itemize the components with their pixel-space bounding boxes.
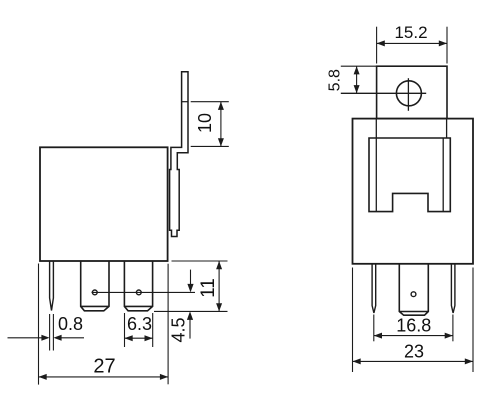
dim 6.3 line xyxy=(125,337,153,339)
right view: center pin xyxy=(399,264,428,315)
dim 16.8 line xyxy=(374,335,453,337)
pin tip extension line xyxy=(154,310,228,312)
dim 23 line xyxy=(353,360,474,362)
dim 10 line xyxy=(220,102,222,147)
right view: mounting tab xyxy=(377,66,447,118)
dim 4.5 arrow xyxy=(189,317,191,339)
leader arrow to hole line xyxy=(190,270,192,286)
bracket bend line xyxy=(182,101,188,103)
dim 10 ref bottom line xyxy=(191,145,229,147)
23 extension lines xyxy=(352,268,354,373)
dim 27 line xyxy=(39,376,169,378)
left view: thin pin xyxy=(50,261,54,311)
0.8 extension lines xyxy=(49,314,51,351)
svg-text:27: 27 xyxy=(93,356,115,378)
crosshair vertical xyxy=(407,78,409,111)
recess outline xyxy=(369,138,450,212)
27 extension line right xyxy=(167,264,169,385)
tab hole circle xyxy=(396,81,421,106)
right view: left thin pin xyxy=(372,264,376,313)
svg-text:11: 11 xyxy=(198,278,219,298)
pin 1 hole xyxy=(92,290,97,295)
right view: body xyxy=(353,119,474,264)
left view: mounting bracket xyxy=(170,72,188,237)
left view: relay body xyxy=(40,147,168,261)
right view: right thin pin xyxy=(451,264,455,313)
6.3 extension lines xyxy=(124,313,126,347)
bracket line inside body right xyxy=(446,119,448,138)
dim 0.8 right arrow xyxy=(62,337,85,339)
svg-text:10: 10 xyxy=(195,113,215,133)
dim 10 ref top line xyxy=(191,101,229,103)
16.8 extension lines xyxy=(373,315,375,342)
bracket line inside body left xyxy=(375,119,377,212)
dim 5.8 line xyxy=(356,66,358,93)
left view: wide pin 1 xyxy=(81,261,109,311)
svg-text:5.8: 5.8 xyxy=(326,69,343,91)
svg-text:0.8: 0.8 xyxy=(58,314,83,334)
27 extension line left xyxy=(38,264,40,385)
5.8 top ref line xyxy=(341,65,377,67)
crosshair horizontal / 5.8 bottom ref xyxy=(341,92,426,94)
dim 0.8 left arrow xyxy=(8,337,42,339)
svg-text:16.8: 16.8 xyxy=(396,316,431,336)
svg-text:6.3: 6.3 xyxy=(127,314,152,334)
body bottom extension line xyxy=(172,260,228,262)
dim 11 line xyxy=(218,261,220,311)
recess inner right line xyxy=(442,138,444,212)
15.2 extension lines xyxy=(376,27,378,64)
hole center line xyxy=(92,291,196,293)
svg-text:4.5: 4.5 xyxy=(168,317,188,342)
svg-text:15.2: 15.2 xyxy=(394,23,427,42)
dim 15.2 line xyxy=(377,42,447,44)
pin 2 hole xyxy=(136,290,141,295)
left view: wide pin 2 xyxy=(124,261,152,311)
svg-text:23: 23 xyxy=(404,342,424,362)
center pin hole xyxy=(411,292,416,297)
